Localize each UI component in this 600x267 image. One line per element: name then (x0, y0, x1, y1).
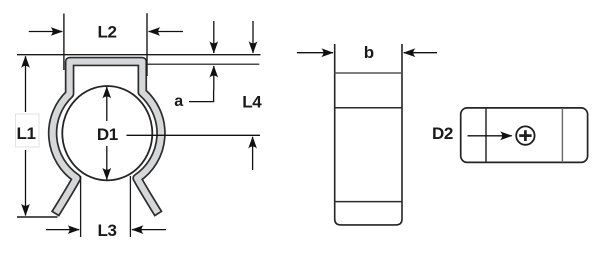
svg-text:L1: L1 (16, 124, 35, 143)
center cross plus (519, 134, 531, 137)
label L1 (16, 114, 40, 147)
svg-text:D2: D2 (432, 124, 453, 143)
inner vertical line right (561, 108, 563, 162)
dimension L4 : up arrow (252, 137, 254, 170)
svg-text:L4: L4 (242, 93, 262, 112)
D1 leader line to the right (127, 134, 261, 136)
L3 extension line left (80, 176, 82, 237)
b arrow right (404, 52, 437, 54)
inner vertical line left (485, 108, 487, 162)
clip body strip (dark outline) (53, 62, 161, 215)
clip body strip (gray fill) (53, 62, 161, 213)
L2 extension line right (146, 13, 148, 76)
bottom extension line (leg tip plane) (17, 216, 58, 218)
inner line 3 (335, 201, 402, 203)
hole center circle (516, 126, 534, 144)
side view outline (U shape with rounded bottom) (335, 44, 402, 225)
svg-text:L2: L2 (97, 23, 116, 42)
dimension D1 vertical arrows (106, 87, 108, 121)
L2 arrow left (29, 31, 63, 33)
dimension a : down arrow (213, 21, 215, 53)
top extension line (top plane) (17, 54, 261, 56)
svg-text:a: a (174, 93, 183, 110)
D2 arrow (468, 135, 512, 137)
svg-text:L3: L3 (97, 221, 116, 240)
tail strip (side exit) bottom line (147, 63, 259, 65)
label D1 (92, 123, 126, 145)
hole circle D1 (62, 86, 152, 180)
svg-text:b: b (364, 43, 374, 62)
L3 arrow left (46, 229, 79, 231)
L3 arrow right (132, 229, 166, 231)
dimension a : up arrow (213, 66, 215, 91)
b arrow left (297, 52, 333, 54)
L2 arrow right (149, 31, 183, 33)
top view rounded rect (461, 108, 588, 162)
inner line 2 (335, 107, 402, 109)
inner line 1 (335, 72, 402, 74)
leader elbow for a (189, 91, 214, 102)
dimension L4 : down arrow (252, 21, 254, 53)
L3 extension line right (129, 176, 131, 237)
dimension L1 line with arrows (25, 56, 27, 215)
L2 extension line left (63, 14, 65, 71)
svg-text:D1: D1 (97, 125, 118, 144)
